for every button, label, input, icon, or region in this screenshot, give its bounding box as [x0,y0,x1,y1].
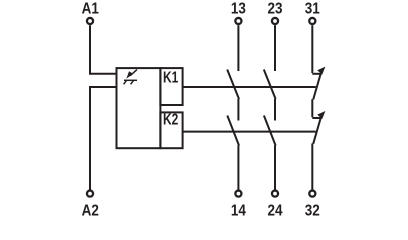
seat NC K1 ch3 [312,73,321,75]
mechanical link K1 to contacts [183,86,316,88]
terminal 23 [272,18,278,24]
svg-text:K1: K1 [163,68,179,86]
contact blade K1 ch1 [227,70,239,100]
relay K2 box [160,112,182,148]
contact blade K2 ch2 [264,116,276,146]
coil box [117,68,161,148]
seat NC K2 ch3 [312,117,321,119]
wire 31 down [311,25,313,73]
wire 24 down [274,145,276,189]
terminal 14 [235,191,241,197]
terminal A1 [87,18,93,24]
wire A1 to coil pin 1 [90,25,117,73]
svg-text:K2: K2 [163,110,179,128]
svg-text:32: 32 [305,203,320,220]
contact blade K1 ch2 [264,70,276,100]
wire 23 down [274,25,276,71]
contact blade NC K2 ch3 [313,116,321,144]
svg-text:14: 14 [231,203,246,220]
relay K1 box [160,68,182,105]
contact blade K2 ch1 [227,116,239,146]
svg-text:A2: A2 [82,203,99,220]
svg-text:24: 24 [268,203,283,220]
terminal 24 [272,191,278,197]
contact blade NC K1 ch3 [313,72,321,100]
wire coil pin 2 to A2 [90,87,117,190]
svg-text:A1: A1 [82,1,99,18]
wire 13 down [237,25,239,71]
blade arrow NC K1 [317,67,325,75]
svg-text:31: 31 [305,1,320,18]
blade arrow NC K2 [317,111,325,119]
wire mid ch1 [237,99,239,121]
wire mid ch3 [311,99,313,117]
terminal 31 [309,18,315,24]
forcibly guided contacts symbol [124,70,137,85]
terminal 32 [309,191,315,197]
wire mid ch2 [274,99,276,121]
mechanical link K2 to contacts [183,131,316,133]
wire 32 down [311,144,313,190]
svg-text:23: 23 [268,1,283,18]
svg-text:13: 13 [231,1,246,18]
terminal 13 [235,18,241,24]
terminal A2 [87,191,93,197]
wire 14 down [237,145,239,189]
